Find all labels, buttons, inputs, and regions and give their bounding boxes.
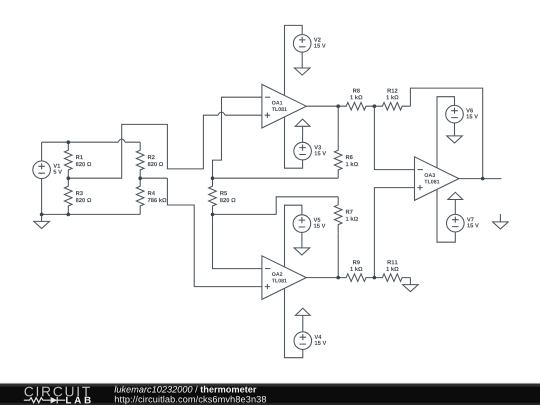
node R2 R4 bbox=[138, 176, 142, 180]
voltage source V5 bbox=[285, 205, 311, 267]
voltage source V2 bbox=[285, 25, 312, 95]
wire top rail V1 R1 R2 with hop bbox=[42, 139, 141, 142]
rotated ground above V7 bbox=[448, 192, 463, 199]
label R6 1k bbox=[346, 155, 358, 166]
wire R5 bottom node to R7 top bbox=[213, 197, 339, 215]
label R5 820 bbox=[220, 191, 236, 202]
resistor R5 bbox=[209, 178, 217, 214]
voltage source V3 bbox=[285, 117, 312, 168]
op-amp OA1 TL081 bbox=[262, 84, 306, 128]
node R1 top bbox=[67, 140, 71, 144]
resistor R3 bbox=[65, 178, 73, 214]
ground after R11 bbox=[403, 278, 419, 292]
footer author title bbox=[114, 386, 256, 393]
label R1 820 bbox=[76, 155, 92, 166]
logo resistor diode glyph bbox=[24, 397, 65, 403]
ground below V2 bbox=[294, 68, 310, 75]
wire OA2 output bbox=[306, 277, 338, 279]
label V2 15 V bbox=[314, 38, 326, 48]
wire OA1 minus input to R5 top bbox=[213, 97, 262, 178]
label V7 15 V bbox=[467, 217, 479, 227]
wire R8 R12 junction to OA3 minus input bbox=[374, 106, 414, 169]
resistor R12 bbox=[374, 102, 410, 110]
label R8 1k bbox=[350, 89, 362, 100]
label V5 15 V bbox=[314, 218, 326, 228]
resistor R1 bbox=[65, 142, 73, 178]
logo LAB bbox=[66, 397, 91, 404]
label R9 1k bbox=[350, 260, 362, 271]
wire node A R1R3 to OA1 plus input with hop bbox=[68, 112, 262, 178]
node V1 ground bbox=[40, 213, 44, 217]
label V6 15 V bbox=[466, 108, 478, 118]
node R9 R11 bbox=[373, 276, 377, 280]
label R7 1k bbox=[346, 210, 358, 221]
rotated ground above V3 bbox=[295, 119, 310, 126]
node R5 bottom bbox=[211, 213, 215, 217]
ground below V1 bbox=[34, 214, 50, 228]
voltage source V6 bbox=[437, 97, 463, 168]
wire OA1 output bbox=[306, 105, 338, 107]
label R12 1k bbox=[386, 89, 398, 100]
wire node B R2R4 to OA2 plus input bbox=[140, 178, 262, 286]
wire R12 to OA3 output feedback bbox=[410, 88, 482, 179]
voltage source V1 bbox=[33, 142, 51, 214]
node R1 R3 bbox=[67, 176, 71, 180]
wire R5 top node to R6 bottom bbox=[213, 177, 339, 179]
voltage source V7 bbox=[437, 189, 464, 242]
resistor R7 bbox=[334, 197, 342, 278]
node R5 top bbox=[211, 176, 215, 180]
op-amp OA3 TL081 bbox=[415, 157, 459, 201]
label V4 15 V bbox=[314, 335, 326, 345]
resistor R9 bbox=[338, 274, 374, 282]
resistor R11 bbox=[374, 274, 410, 282]
label V1 5 V bbox=[53, 164, 62, 174]
label R2 820 bbox=[148, 155, 164, 166]
label R4 786k bbox=[148, 191, 167, 202]
label V3 15 V bbox=[314, 145, 326, 155]
resistor R2 bbox=[136, 142, 144, 178]
wire OA3 output bbox=[459, 178, 502, 180]
op-amp OA2 TL081 bbox=[262, 256, 306, 300]
floating ground right of V7 bbox=[493, 214, 509, 229]
logo CIRCUIT bbox=[25, 387, 90, 397]
ground below V6 bbox=[447, 136, 463, 143]
footer bar bbox=[0, 383, 540, 405]
rotated ground above V4 bbox=[295, 308, 310, 315]
node R8 R12 bbox=[373, 104, 377, 108]
node R3 ground bbox=[67, 213, 71, 217]
footer url bbox=[115, 396, 266, 405]
voltage source V4 bbox=[285, 288, 312, 357]
node OA2 output bbox=[336, 276, 340, 280]
resistor R4 bbox=[136, 178, 144, 214]
label R3 820 bbox=[76, 191, 92, 202]
ground below V5 bbox=[294, 248, 310, 255]
node OA3 output feedback bbox=[481, 177, 485, 181]
label R11 1k bbox=[386, 260, 398, 271]
resistor R8 bbox=[338, 102, 374, 110]
node OA1 output bbox=[336, 104, 340, 108]
wire R9 R11 junction to OA3 plus input bbox=[374, 188, 414, 278]
resistor R6 bbox=[334, 106, 342, 178]
wire bottom ground rail bbox=[42, 213, 141, 215]
wire R5 bottom to OA2 minus input bbox=[213, 214, 262, 268]
